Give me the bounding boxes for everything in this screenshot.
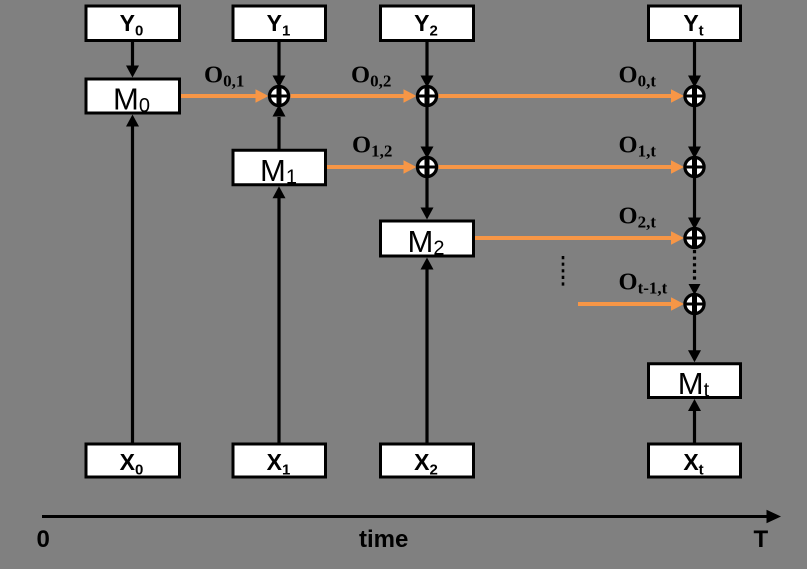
svg-text:T: T xyxy=(754,526,769,553)
svg-text:0: 0 xyxy=(37,526,50,553)
svg-text:time: time xyxy=(359,526,408,553)
